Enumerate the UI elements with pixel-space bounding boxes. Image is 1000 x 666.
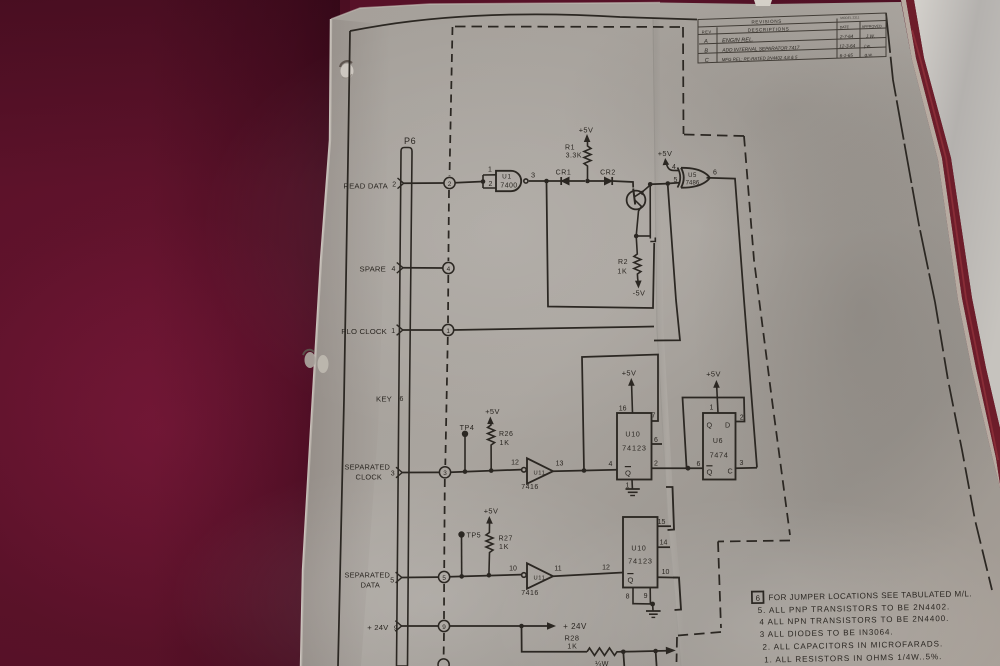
svg-text:U1: U1	[502, 174, 512, 181]
svg-text:3: 3	[391, 471, 395, 478]
node U1 output junction	[544, 179, 549, 184]
wire R1 junction to CR2	[588, 180, 605, 182]
svg-text:CR2: CR2	[600, 169, 616, 176]
wire U1 output to CR junction	[529, 180, 547, 182]
test point TP4	[460, 423, 475, 471]
revision table	[698, 13, 886, 63]
one-shot U10a 74123	[617, 413, 652, 480]
node R26 junction	[489, 468, 494, 473]
connector P6 body	[397, 136, 417, 666]
node contact partial at bottom	[438, 659, 449, 666]
svg-text:3.3K: 3.3K	[566, 153, 582, 160]
node feedback junction on clock wire	[582, 468, 587, 473]
test point TP5	[458, 531, 481, 577]
wire retrigger loop U10a pin7	[582, 355, 658, 471]
svg-text:Q: Q	[707, 467, 713, 476]
resistor R28 1K quarter watt	[564, 634, 619, 666]
resistor R26 1K	[485, 407, 513, 471]
svg-text:U6: U6	[713, 438, 723, 445]
wire contact9 to junction	[450, 625, 522, 627]
wire P6 pin1 to contact 1	[403, 329, 443, 331]
node collector junction	[634, 234, 639, 239]
page left bright edge sliver	[301, 19, 331, 666]
svg-text:+5V: +5V	[484, 506, 499, 515]
wire contact2 to U1 input node	[455, 182, 483, 183]
svg-text:REV: REV	[702, 29, 712, 34]
svg-text:¼W: ¼W	[595, 659, 609, 666]
wire P6 pin3 to contact 3	[402, 471, 439, 473]
wire PLO clock long horizontal (left of seam)	[454, 327, 654, 331]
wire input split to pins 1 and 2	[483, 175, 496, 188]
svg-text:C: C	[728, 466, 733, 475]
paper tab top edge	[754, 0, 772, 6]
+5V arrow to U6 pin1	[706, 369, 721, 413]
svg-text:14: 14	[660, 540, 668, 547]
svg-text:3: 3	[531, 171, 535, 180]
svg-text:2-7-64: 2-7-64	[839, 34, 854, 39]
svg-text:6: 6	[697, 461, 701, 468]
wire U6 Qbar to D feedback loop	[683, 398, 745, 469]
wire CR2 to Q1 base	[612, 181, 633, 188]
wire drop from junction 1	[623, 652, 624, 666]
svg-text:10: 10	[662, 569, 670, 576]
svg-text:Q: Q	[707, 421, 713, 430]
svg-text:6-1-65: 6-1-65	[840, 53, 854, 58]
svg-text:Q: Q	[625, 468, 631, 477]
wire U10b pin14 stub	[658, 546, 671, 548]
svg-text:+5V: +5V	[622, 368, 637, 377]
nand gate U1 7400	[496, 171, 528, 191]
svg-text:1: 1	[710, 405, 714, 412]
svg-text:U10: U10	[625, 432, 640, 439]
wire U5 output down to U6 clock	[707, 178, 758, 468]
svg-text:1K: 1K	[567, 643, 577, 650]
svg-text:4: 4	[609, 461, 613, 468]
overlay sheet seam	[653, 18, 681, 666]
svg-text:PLO CLOCK: PLO CLOCK	[341, 327, 387, 336]
svg-text:D: D	[725, 421, 730, 430]
svg-text:4: 4	[447, 266, 451, 273]
svg-text:R28: R28	[564, 634, 579, 643]
binder hole top	[340, 61, 354, 78]
svg-text:U5: U5	[688, 173, 697, 179]
svg-text:DATE: DATE	[840, 25, 850, 29]
svg-text:DATA: DATA	[361, 580, 380, 589]
svg-text:J.W.: J.W.	[865, 34, 875, 39]
wire contact5 to U11b input	[450, 575, 521, 577]
svg-text:7400: 7400	[500, 182, 517, 189]
svg-text:A: A	[703, 39, 708, 45]
node emitter junction	[648, 182, 653, 187]
node U6 input junction	[686, 466, 691, 471]
svg-text:9: 9	[644, 593, 648, 600]
svg-text:READ DATA: READ DATA	[343, 182, 388, 191]
svg-text:2: 2	[654, 461, 658, 468]
svg-text:5: 5	[390, 578, 394, 585]
frame left border	[338, 31, 350, 666]
svg-text:g.w.: g.w.	[865, 52, 873, 57]
svg-text:1K: 1K	[500, 440, 510, 447]
svg-text:1K: 1K	[617, 268, 627, 275]
svg-text:74123: 74123	[622, 444, 647, 453]
svg-text:CLOCK: CLOCK	[356, 472, 382, 481]
svg-text:74123: 74123	[628, 557, 653, 566]
wire PLO clock right of seam to vertical	[654, 186, 680, 341]
svg-text:5: 5	[674, 177, 678, 184]
svg-text:3: 3	[740, 460, 744, 467]
svg-text:6: 6	[713, 169, 717, 176]
frame right border (upper)	[886, 13, 935, 302]
inverter U11b 7416	[521, 563, 553, 597]
inverter U11a 7416	[521, 458, 553, 491]
svg-text:7416: 7416	[521, 590, 539, 597]
node U1 input junction	[481, 179, 486, 184]
wire R28 junctions to arrow	[620, 651, 667, 652]
svg-text:3: 3	[443, 470, 447, 477]
svg-text:B: B	[704, 48, 708, 54]
svg-text:+5V: +5V	[485, 407, 500, 416]
wire emitter node to U5 node	[650, 183, 667, 186]
svg-text:13: 13	[556, 461, 564, 468]
svg-text:Q: Q	[628, 575, 634, 584]
resistor R1 3.3K	[565, 126, 593, 181]
svg-text:12: 12	[511, 459, 519, 466]
svg-text:11: 11	[554, 566, 561, 573]
svg-text:4: 4	[392, 266, 396, 273]
svg-text:MODEL 2311: MODEL 2311	[840, 15, 859, 20]
wire P6 pin2 to contact 2	[404, 182, 444, 184]
svg-text:TP5: TP5	[467, 531, 482, 540]
diode CR2	[600, 169, 616, 185]
node contact 1	[443, 324, 454, 335]
svg-text:TP4: TP4	[460, 423, 475, 432]
right pages-edge bright sliver under cover edge	[901, 0, 1000, 488]
node TP4 junction	[463, 469, 468, 474]
wire junction down to R28	[522, 626, 588, 652]
svg-text:12: 12	[602, 564, 610, 571]
wire +24V arrow	[522, 625, 550, 627]
svg-text:8: 8	[626, 593, 630, 600]
node contact 3	[439, 467, 450, 478]
red cover edge strip	[906, 0, 1000, 484]
wire node into U5 pin 5	[668, 182, 680, 185]
left signal labels and P6 pins	[341, 178, 404, 633]
svg-text:12-3-64: 12-3-64	[839, 43, 855, 49]
svg-text:CR1: CR1	[556, 170, 572, 177]
svg-text:15: 15	[658, 519, 666, 526]
svg-text:+5V: +5V	[706, 369, 721, 378]
+5V arrow into U5 pin 4	[658, 149, 679, 171]
svg-text:SPARE: SPARE	[360, 265, 387, 274]
node R1 bottom junction	[585, 179, 590, 184]
wire junction to CR1	[547, 180, 586, 182]
wire vertical from emitter node down with hook	[650, 184, 655, 241]
svg-text:16: 16	[619, 406, 627, 413]
wire U10a pin2 to U6 pin6	[652, 467, 704, 469]
wire U11b output to U10b pin12	[553, 573, 623, 577]
svg-text:10: 10	[509, 565, 517, 572]
page sheet	[301, 2, 1000, 666]
svg-text:APPROVED: APPROVED	[862, 24, 882, 29]
wire U6 pin3 clock to U5 line	[736, 467, 758, 470]
wire drop from junction 2	[656, 651, 657, 666]
wire collector junction stub right	[636, 235, 650, 237]
wire U10b pin15 stub	[658, 525, 672, 527]
svg-text:1: 1	[391, 328, 395, 335]
wire Q1 emitter up to node	[643, 185, 650, 192]
node ground junction	[650, 602, 655, 607]
wire P6 pin5 to contact 5	[402, 576, 439, 578]
ground below U10b	[646, 604, 661, 617]
arrow right end	[666, 647, 676, 655]
svg-text:+ 24V: + 24V	[563, 622, 587, 631]
svg-text:P6: P6	[404, 136, 416, 146]
svg-text:U11: U11	[533, 470, 545, 476]
flip-flop U6 7474	[703, 413, 736, 480]
note 6 flag box	[752, 591, 764, 603]
node TP5 junction	[459, 574, 464, 579]
svg-text:R1: R1	[565, 144, 575, 151]
node R28 out junction 1	[621, 650, 626, 655]
cable bracket pin15	[666, 487, 674, 530]
svg-text:7474: 7474	[710, 451, 729, 460]
svg-text:ENGIN REL.: ENGIN REL.	[722, 37, 754, 44]
node contact 2	[444, 177, 455, 188]
svg-text:R26: R26	[499, 431, 513, 438]
node R27 junction	[487, 573, 492, 578]
svg-text:2: 2	[392, 181, 396, 188]
svg-text:1: 1	[446, 328, 450, 335]
node contact 5	[439, 571, 450, 582]
page left inner shadow	[301, 19, 390, 666]
wire P6 pin9 to contact 9	[402, 625, 439, 627]
frame top border	[350, 14, 697, 31]
resistor R27 1K	[484, 506, 513, 575]
resistor R2 1K	[617, 236, 645, 297]
section boundary (dashed)	[455, 27, 790, 663]
node U5 input junction	[666, 181, 671, 186]
svg-text:9: 9	[442, 624, 446, 631]
wire feedback box from U1 output	[547, 183, 655, 308]
binder hole middle	[303, 350, 329, 373]
node contact 4	[443, 262, 454, 273]
page lighting overlays	[200, 10, 800, 450]
wire P6 pin4 to contact 4	[403, 267, 443, 269]
svg-text:7486: 7486	[686, 180, 700, 186]
connector contact circles	[438, 177, 455, 666]
svg-text:6: 6	[755, 594, 760, 603]
wire U10a pin6 stub	[652, 443, 663, 445]
svg-text:6: 6	[400, 396, 404, 403]
wire U10a pin1 to ground	[631, 480, 633, 489]
svg-text:+ 24V: + 24V	[367, 623, 389, 632]
svg-text:1K: 1K	[499, 544, 509, 551]
svg-text:6: 6	[654, 437, 658, 444]
svg-text:R27: R27	[499, 536, 513, 543]
cable bracket pin10	[673, 578, 681, 610]
one-shot U10b 74123	[623, 517, 658, 588]
node +24V junction	[519, 624, 524, 629]
svg-text:2: 2	[740, 415, 744, 422]
svg-text:SEPARATED: SEPARATED	[345, 570, 390, 579]
+5V arrow to U10a pin16	[622, 368, 637, 413]
svg-text:7416: 7416	[521, 484, 539, 491]
svg-text:U11: U11	[533, 576, 545, 582]
svg-text:-5V: -5V	[633, 288, 646, 297]
svg-text:+5V: +5V	[579, 126, 594, 135]
node contact 9	[438, 620, 449, 631]
wire pins 8,9 to ground junction	[633, 588, 650, 604]
ground below U10a	[626, 489, 640, 496]
wire U10b pin10 stub	[658, 576, 679, 578]
xor gate U5 7486	[678, 168, 710, 188]
svg-text:KEY: KEY	[376, 394, 392, 403]
svg-text:2: 2	[448, 181, 452, 188]
frame right border (lower, page edge trim line)	[935, 302, 992, 590]
svg-text:5: 5	[442, 575, 446, 582]
svg-text:1: 1	[488, 166, 492, 173]
svg-text:REVISIONS: REVISIONS	[751, 19, 782, 25]
wire U11a output to U10a pin4	[553, 470, 617, 471]
svg-text:U10: U10	[631, 546, 646, 553]
transistor Q1	[627, 189, 646, 237]
table surface (grey) top-right	[914, 0, 1000, 428]
connector dashed line P6 (between circles)	[444, 27, 453, 657]
svg-text:R2: R2	[618, 259, 628, 266]
diode CR1	[556, 170, 572, 185]
wire contact3 to U11a input	[451, 470, 521, 473]
svg-text:+5V: +5V	[658, 149, 673, 158]
svg-text:j.w.: j.w.	[863, 43, 871, 48]
svg-text:2: 2	[489, 181, 493, 188]
svg-text:SEPARATED: SEPARATED	[345, 462, 390, 471]
node R28 out junction 2	[653, 649, 658, 654]
cover gutter shadow	[0, 0, 1, 1]
